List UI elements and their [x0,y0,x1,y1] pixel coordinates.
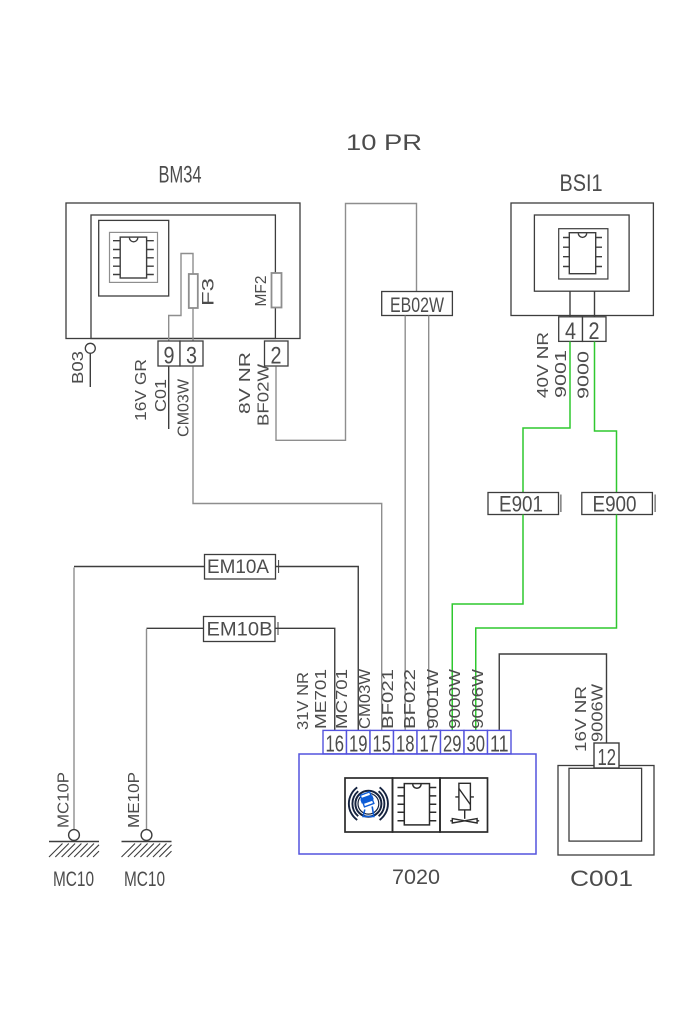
svg-text:MC10: MC10 [53,868,94,891]
wire BF021 EB02W to pin18 [404,316,406,731]
pin box 15 (7020) [370,730,394,754]
svg-text:ME701: ME701 [313,669,330,729]
svg-text:12: 12 [598,744,617,770]
wire green 9001W E901 to pin29 [452,515,523,731]
wire EM10B right to pin16 [275,628,335,730]
pin box 2 (BM34) [265,341,289,366]
svg-text:MF2: MF2 [253,275,270,306]
wire F3 bottom to pin 3 [192,308,194,341]
svg-text:18: 18 [396,731,415,757]
svg-text:C001: C001 [570,866,633,891]
svg-text:10 PR: 10 PR [346,130,422,155]
svg-text:8V NR: 8V NR [237,352,254,414]
icon IC body [398,784,437,825]
wire BSI pin4 stub [569,291,571,317]
svg-text:BM34: BM34 [159,162,202,189]
svg-text:CM03W: CM03W [176,378,193,437]
svg-text:31V NR: 31V NR [295,672,312,730]
splice E901 box [488,493,559,515]
splice EM10A box [205,555,276,580]
pin box 9 (BM34) [158,341,180,366]
pin box 30 (7020) [464,730,488,754]
svg-text:19: 19 [349,731,368,757]
wire 9006W pin11 to C001 pin12 [499,654,606,743]
pin box 12 (C001) [594,743,619,768]
pin box 16 (7020) [323,730,347,754]
component BSI1 inner box [534,215,629,291]
pin box 3 (BM34) [180,341,203,366]
wire EM10A left [74,566,205,568]
svg-text:BF022: BF022 [402,669,419,729]
icon pump [450,783,479,823]
component C001 inner box [569,768,642,841]
svg-text:7020: 7020 [392,866,440,889]
svg-text:C01: C01 [153,379,170,412]
pin box 2 (BSI1) [583,317,607,342]
svg-text:E901: E901 [499,492,543,517]
component C001 outer box [558,766,654,856]
svg-text:CM03W: CM03W [357,668,374,729]
svg-text:9: 9 [164,343,175,370]
IC frame outer (BM34) [99,220,169,296]
wire ground drop ME10P [146,629,148,830]
icon box ESP [345,778,393,832]
svg-text:9001W: 9001W [425,668,442,729]
svg-text:MC701: MC701 [334,669,351,729]
svg-text:E900: E900 [593,492,637,517]
svg-text:9006W: 9006W [470,668,487,729]
wire CM03W pin3 to pin15 [193,367,382,731]
svg-text:11: 11 [490,731,509,757]
svg-text:30: 30 [467,731,486,757]
wire green 9001 BSI pin4 to E901 [523,342,570,493]
svg-text:4: 4 [565,318,576,345]
icon ESP circle rings [349,787,388,820]
icon ESP skid [363,807,374,817]
wire BSI pin2 stub [594,291,596,317]
svg-text:B03: B03 [70,351,87,384]
splice EM10B box [204,617,276,642]
ground MC10 left [49,830,99,857]
svg-text:BF02W: BF02W [256,363,273,426]
icon box pump [440,778,488,832]
fuse F3 [189,274,198,308]
icon ESP side arcs [352,791,358,816]
fuse MF2 [272,273,282,308]
wire BF02W pin2 to EB02W [276,204,417,441]
svg-text:EM10B: EM10B [207,619,273,641]
wire EM10B left [147,627,204,629]
IC body U (BM34) [113,237,154,278]
component BM34 outer box [66,203,300,339]
IC body (BSI1) [563,233,602,274]
IC frame (BSI1) [559,229,608,279]
svg-text:40V NR: 40V NR [535,332,552,398]
svg-text:EB02W: EB02W [390,294,444,317]
node B03 circle [85,343,95,353]
svg-text:MC10: MC10 [124,868,165,891]
node B03 wire [89,354,91,388]
wire stub pin 9 [168,367,170,430]
svg-text:BSI1: BSI1 [560,170,603,197]
wire F3 top to pin 9 [169,254,193,342]
pin box 19 (7020) [347,730,371,754]
wire EM10A right to pin19 [276,567,359,731]
splice E900 box [582,493,653,515]
svg-text:29: 29 [443,731,462,757]
svg-text:ME10P: ME10P [126,772,143,828]
wire ground drop MC10P [73,568,75,830]
ground ME10 right [122,830,172,857]
svg-text:9006W: 9006W [590,683,607,742]
svg-text:9000: 9000 [576,351,593,399]
svg-text:MC10P: MC10P [56,772,73,828]
component BSI1 outer box [511,203,653,316]
svg-text:16V GR: 16V GR [133,359,150,421]
svg-text:BF021: BF021 [380,669,397,729]
splice EB02W box [382,292,453,316]
IC frame inner (BM34) [110,232,158,282]
svg-text:17: 17 [420,731,439,757]
svg-text:F3: F3 [199,278,218,306]
svg-text:16: 16 [326,731,345,757]
pin box 29 (7020) [441,730,465,754]
pin box 17 (7020) [417,730,441,754]
svg-text:16V NR: 16V NR [573,686,590,752]
pin box 4 (BSI1) [559,317,583,342]
wire BF022 EB02W to pin17 [428,316,430,731]
component BM34 inner box [91,215,275,339]
pin box 11 (7020) [488,730,512,754]
component 7020 blue box [299,754,536,854]
svg-text:9001: 9001 [553,350,570,398]
pin box 18 (7020) [394,730,418,754]
wire green 9000W E900 to pin30 [476,515,617,731]
svg-text:EM10A: EM10A [207,556,269,578]
svg-text:15: 15 [373,731,392,757]
svg-text:2: 2 [589,318,600,345]
svg-text:3: 3 [186,343,197,370]
icon ESP car [359,791,375,807]
svg-text:9000W: 9000W [447,668,464,729]
wire green 9000 BSI pin2 to E900 [595,342,617,493]
icon box IC [393,778,441,832]
